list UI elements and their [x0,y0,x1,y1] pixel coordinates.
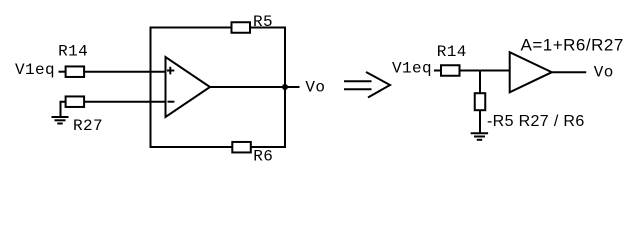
node: output junction dot [282,84,288,90]
resistor R5 [232,22,251,33]
wire: junction down to input resistor [479,71,481,94]
op-amp - input marking [168,101,175,103]
wire: R14 to amplifier input [460,70,510,72]
svg-text:Vo: Vo [305,78,325,96]
implication arrow [344,72,390,98]
resistor R14 (right circuit) [441,65,460,76]
svg-text:A=1+R6/R27: A=1+R6/R27 [521,35,624,54]
wire: amplifier output to Vo (right circuit) [552,71,586,73]
ground (left circuit) [52,117,69,124]
wire: R14 to op-amp + input [85,71,166,73]
ground (right circuit) [471,133,488,140]
op-amp U1 [166,57,211,117]
svg-text:R27: R27 [73,117,103,135]
wire: V1eq to R14 (right circuit) [434,70,441,72]
op-amp + input marking [167,67,174,75]
wire: R27 to op-amp - input [85,101,166,103]
svg-text:V1eq: V1eq [15,61,55,79]
wire: resistor to ground (right circuit) [479,110,481,133]
resistor -R5 R27 / R6 (vertical) [475,93,486,110]
wire: R27 left stub down to ground [61,102,66,117]
svg-text:R6: R6 [253,148,273,166]
wire: feedback network right vertical from R5 to R6 [250,28,285,148]
svg-text:R14: R14 [437,43,467,61]
wire: feedback network left vertical with top/bottom corners [151,28,233,148]
resistor R14 (left circuit) [66,66,85,77]
wire: op-amp output to Vo [210,86,300,88]
wire: V1eq to resistor R14 [59,71,67,73]
svg-text:V1eq: V1eq [392,59,432,77]
resistor R6 [232,142,251,153]
svg-text:Vo: Vo [594,64,614,82]
svg-text:R14: R14 [58,43,88,61]
amplifier A (right circuit) [510,52,552,92]
resistor R27 [66,96,85,107]
svg-text:-R5 R27 / R6: -R5 R27 / R6 [487,113,585,130]
